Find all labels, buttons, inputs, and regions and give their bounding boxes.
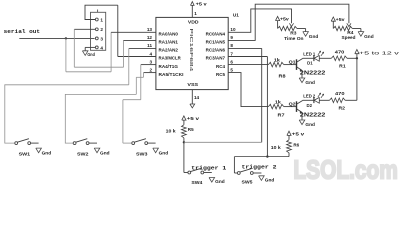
IC U1 pin 12 label RA1/AN1 xyxy=(147,35,178,44)
IC U1 body xyxy=(156,17,228,89)
wire LED1 to R1 xyxy=(319,57,331,59)
wire trigger2 rail xyxy=(234,156,289,158)
pot R4 wiper arrow xyxy=(347,23,351,26)
wire RC3 to trigger2 xyxy=(228,57,267,157)
svg-text:Q2: Q2 xyxy=(289,102,296,107)
svg-text:+5 v: +5 v xyxy=(292,132,305,137)
svg-text:D2: D2 xyxy=(307,103,313,108)
svg-text:R5: R5 xyxy=(188,127,194,132)
svg-text:Gnd: Gnd xyxy=(215,179,225,184)
resistor R5 10k xyxy=(166,125,194,143)
wire trigger1 rail xyxy=(184,141,262,143)
wire R3 to ground xyxy=(297,29,306,32)
resistor R1 470 xyxy=(331,49,347,68)
IC U1 pin 14 VSS stub xyxy=(192,90,199,104)
wire Q2 emitter to ground xyxy=(301,112,303,120)
svg-text:10 k: 10 k xyxy=(271,145,281,150)
IC U1 pin 11 label RA2/AN2 xyxy=(147,43,178,52)
svg-text:RA0/AN0: RA0/AN0 xyxy=(159,32,179,37)
svg-text:7: 7 xyxy=(230,51,233,56)
IC U1 pin 6 label RC4 xyxy=(216,59,233,68)
wire RC0 to R3 wiper xyxy=(228,9,291,32)
IC U1 VSS label xyxy=(187,82,199,88)
pot R3 xyxy=(278,26,304,41)
svg-text:10: 10 xyxy=(230,27,236,32)
wire RA4 to SW3 bus xyxy=(123,65,156,144)
transistor Q1 2N2222 xyxy=(289,59,326,77)
svg-text:4: 4 xyxy=(149,51,152,56)
svg-text:RC2/AN6: RC2/AN6 xyxy=(206,48,226,53)
ground Q2 xyxy=(299,120,315,127)
net label serial out xyxy=(4,29,41,35)
svg-text:Gnd: Gnd xyxy=(159,151,169,156)
wire R1 to rail xyxy=(347,57,357,59)
svg-text:RA3/MCLR: RA3/MCLR xyxy=(159,56,182,61)
wire Q2 collector to LED2 xyxy=(303,99,314,101)
svg-text:R4: R4 xyxy=(347,30,354,35)
net label trigger 1 xyxy=(191,165,227,172)
svg-text:Gnd: Gnd xyxy=(305,122,315,127)
ground Q1 xyxy=(299,78,315,85)
power +5v flag R5 xyxy=(182,116,200,125)
wire pin2 to RA1 xyxy=(74,29,156,67)
svg-text:RA1/AN1: RA1/AN1 xyxy=(159,40,179,45)
svg-text:Gnd: Gnd xyxy=(265,178,275,183)
watermark LSOL.com xyxy=(293,154,398,184)
svg-text:Q1: Q1 xyxy=(289,60,296,65)
svg-text:4: 4 xyxy=(100,45,103,50)
wire trigger1 to SW4 xyxy=(184,142,188,172)
svg-text:470: 470 xyxy=(335,49,345,54)
svg-text:3: 3 xyxy=(149,59,152,64)
ground SW5 xyxy=(259,176,275,183)
IC U1 pin 13 label RA0/AN0 xyxy=(147,27,178,36)
svg-text:VSS: VSS xyxy=(187,82,199,88)
svg-text:+5 to 12 v: +5 to 12 v xyxy=(359,50,400,56)
svg-text:D1: D1 xyxy=(307,60,313,65)
connector pin 4 xyxy=(95,45,103,50)
switch SW3 xyxy=(132,139,169,157)
node serial junction xyxy=(65,37,67,39)
svg-text:5: 5 xyxy=(230,67,233,72)
svg-text:RA2/AN2: RA2/AN2 xyxy=(159,48,179,53)
svg-text:serial out: serial out xyxy=(4,29,41,35)
IC U1 pin 3 label RA4/T1G xyxy=(149,59,178,68)
svg-text:R7: R7 xyxy=(278,112,286,117)
pot R4 xyxy=(333,26,355,40)
wire R7 to Q2 base xyxy=(284,106,296,108)
wire Q1 emitter to ground xyxy=(301,70,303,78)
svg-text:2N2222: 2N2222 xyxy=(300,71,326,77)
svg-text:Speed: Speed xyxy=(342,35,356,40)
svg-text:RC3/AN7: RC3/AN7 xyxy=(206,56,226,61)
wire connector pin4 xyxy=(85,47,95,50)
svg-text:2N2222: 2N2222 xyxy=(300,113,326,119)
svg-text:1: 1 xyxy=(100,17,103,22)
svg-text:8: 8 xyxy=(230,43,233,48)
connector pin 3 xyxy=(95,36,103,41)
ground SW4 xyxy=(209,178,225,185)
wire R8 to Q1 base xyxy=(284,64,296,66)
svg-text:trigger 1: trigger 1 xyxy=(191,165,227,172)
svg-text:LED 1: LED 1 xyxy=(303,52,315,57)
svg-text:12: 12 xyxy=(147,35,153,40)
switch SW5 xyxy=(237,169,261,185)
svg-text:U1: U1 xyxy=(233,13,239,19)
svg-text:RC0/AN4: RC0/AN4 xyxy=(206,32,226,37)
connector J1 body xyxy=(91,10,106,51)
svg-text:R6: R6 xyxy=(293,143,299,148)
wire serial to RA0 xyxy=(66,32,156,72)
svg-text:R3: R3 xyxy=(290,31,297,36)
wire RA5 to SW2 bus xyxy=(65,73,156,144)
svg-text:+5v: +5v xyxy=(280,17,289,22)
wire LED2 to R2 xyxy=(319,99,329,101)
wire RC5 to R7 xyxy=(228,73,268,107)
IC U1 part number xyxy=(188,28,194,72)
svg-text:3: 3 xyxy=(100,36,103,41)
svg-text:2: 2 xyxy=(149,67,152,72)
wire serial out xyxy=(19,37,94,39)
svg-text:RC5: RC5 xyxy=(216,72,225,77)
power arrow VSS down xyxy=(190,104,195,108)
power rail +5 to 12 v xyxy=(355,50,400,101)
svg-text:RC1/AN5: RC1/AN5 xyxy=(206,40,226,45)
IC U1 pin 1 VDD stub xyxy=(192,5,197,17)
switch SW4 xyxy=(188,168,212,185)
power +5v flag top xyxy=(191,1,208,6)
connector pin 2 xyxy=(95,27,103,32)
svg-text:1k: 1k xyxy=(275,100,282,105)
ground connector pin4 xyxy=(82,51,95,57)
IC U1 pin 10 label RC0/AN4 xyxy=(206,27,236,36)
wire RA2 to SW1 bus xyxy=(5,48,156,143)
svg-text:470: 470 xyxy=(335,91,345,96)
switch SW2 xyxy=(73,139,110,157)
power +5v flag R3 xyxy=(276,16,290,28)
svg-text:R1: R1 xyxy=(339,63,346,68)
power +5v flag R4 xyxy=(331,17,345,29)
power +5v flag R6 xyxy=(287,131,305,140)
svg-text:R8: R8 xyxy=(279,73,287,78)
IC U1 VDD label xyxy=(188,19,199,25)
svg-text:VDD: VDD xyxy=(188,19,199,25)
svg-text:+5 v: +5 v xyxy=(187,116,200,121)
IC U1 pin 8 label RC2/AN6 xyxy=(206,43,234,52)
IC U1 pin 2 label RA5/T1CKI xyxy=(149,67,183,76)
IC U1 pin 9 label RC1/AN5 xyxy=(206,35,234,44)
svg-text:PIC16F684: PIC16F684 xyxy=(188,28,194,72)
svg-text:RC4: RC4 xyxy=(216,64,225,69)
svg-text:LSOL.com: LSOL.com xyxy=(293,154,398,184)
svg-text:11: 11 xyxy=(147,43,152,48)
svg-text:SW4: SW4 xyxy=(191,180,202,185)
svg-text:+5v: +5v xyxy=(336,17,345,22)
resistor R6 10k xyxy=(271,140,300,157)
svg-text:trigger 2: trigger 2 xyxy=(242,163,278,170)
svg-text:+5 v: +5 v xyxy=(196,1,208,6)
svg-text:13: 13 xyxy=(147,27,153,32)
svg-text:1: 1 xyxy=(194,11,197,16)
svg-text:SW3: SW3 xyxy=(136,151,148,156)
svg-text:Gnd: Gnd xyxy=(309,34,319,39)
IC U1 pin 7 label RC3/AN7 xyxy=(206,51,234,60)
svg-text:6: 6 xyxy=(230,59,233,64)
svg-text:RA5/T1CKI: RA5/T1CKI xyxy=(159,72,184,77)
svg-text:SW2: SW2 xyxy=(77,151,89,156)
svg-text:Time On: Time On xyxy=(284,36,304,41)
node trigger1 junction xyxy=(183,141,185,143)
svg-text:Gnd: Gnd xyxy=(87,52,95,57)
svg-text:10 k: 10 k xyxy=(166,128,176,133)
wire R4 to ground xyxy=(352,29,361,32)
IC U1 pin 4 label RA3/MCLR xyxy=(149,51,181,60)
ground R4 xyxy=(358,32,374,40)
resistor R8 1k xyxy=(268,58,286,79)
switch SW1 xyxy=(15,139,52,157)
IC U1 pin 5 label RC5 xyxy=(216,67,233,76)
svg-text:14: 14 xyxy=(194,95,200,100)
transistor Q2 2N2222 xyxy=(289,101,326,119)
svg-text:2: 2 xyxy=(100,27,103,32)
LED D1 xyxy=(303,51,323,65)
node rail junction xyxy=(356,57,358,59)
svg-text:Gnd: Gnd xyxy=(364,34,374,39)
svg-text:Gnd: Gnd xyxy=(305,80,315,85)
wire Q1 collector to LED1 xyxy=(303,57,314,59)
svg-text:1k: 1k xyxy=(274,58,281,63)
wire VPP drop to RA3 xyxy=(118,5,156,56)
IC U1 refdes xyxy=(233,13,239,19)
wire RC1 to R4 wiper xyxy=(228,4,349,40)
svg-text:Gnd: Gnd xyxy=(100,151,110,156)
svg-text:9: 9 xyxy=(230,35,233,40)
net label trigger 2 xyxy=(242,163,278,170)
wire R2 to rail xyxy=(345,99,357,101)
svg-text:LED 2: LED 2 xyxy=(303,93,315,98)
wire RC4 to R8 xyxy=(228,64,268,66)
ground R3 xyxy=(303,32,319,39)
node trigger2 junction xyxy=(266,155,268,157)
svg-text:SW5: SW5 xyxy=(242,180,253,185)
resistor R2 470 xyxy=(330,91,346,111)
wire RC2 to trigger1 xyxy=(228,48,262,142)
svg-text:Gnd: Gnd xyxy=(42,151,52,156)
connector pin 1 xyxy=(95,17,103,22)
resistor R7 1k xyxy=(268,100,285,118)
pot R3 wiper arrow xyxy=(289,23,293,26)
svg-text:RA4/T1G: RA4/T1G xyxy=(159,64,179,69)
wire connector pin2 xyxy=(74,28,95,30)
svg-text:SW1: SW1 xyxy=(19,151,31,156)
LED D2 xyxy=(303,93,323,108)
svg-text:R2: R2 xyxy=(339,106,346,111)
wire connector pin1 xyxy=(85,5,118,19)
wire trigger2 to SW5 xyxy=(234,157,237,173)
